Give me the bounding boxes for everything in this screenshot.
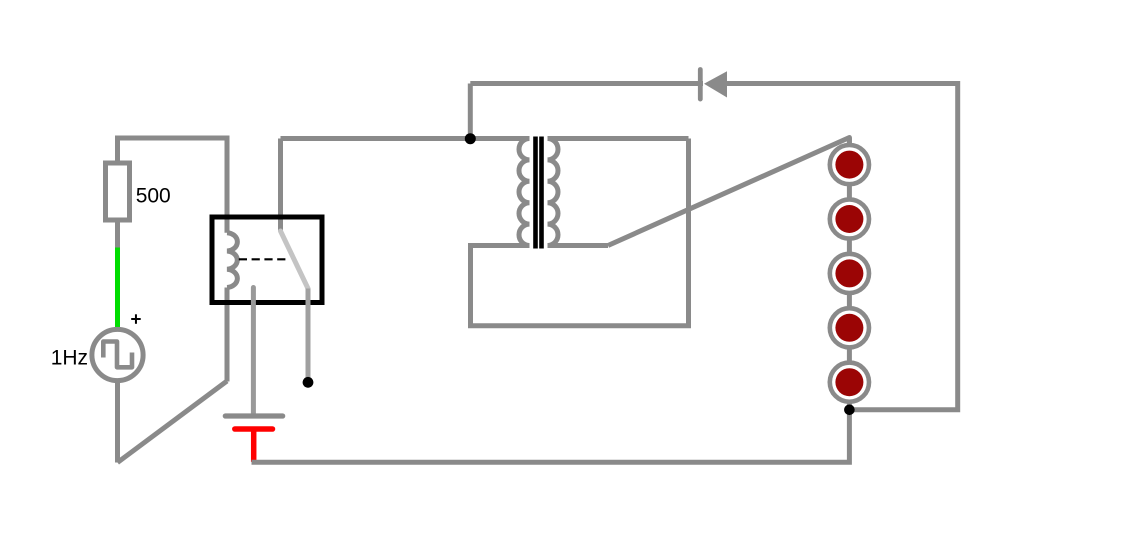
wire top-left from resistor top to relay coil top bbox=[118, 138, 228, 233]
wire transformer secondary top bbox=[548, 136, 689, 141]
LED D4 bbox=[830, 254, 869, 293]
svg-text:1Hz: 1Hz bbox=[51, 347, 88, 370]
wire switch top lead bbox=[278, 139, 283, 232]
relay RL1 coil bbox=[227, 233, 237, 288]
wire transformer primary bottom bbox=[471, 139, 689, 326]
voltage source VS1 1Hz square wave bbox=[92, 329, 143, 380]
wire source bottom lead down bbox=[115, 383, 120, 463]
relay common lead down to ground bbox=[251, 288, 256, 416]
relay switch open post dot bbox=[303, 377, 314, 388]
label + (source positive terminal) bbox=[131, 314, 141, 324]
node junction at LED bottom bbox=[844, 405, 855, 416]
wire relay coil bottom lead bbox=[225, 288, 230, 382]
wire junction vertical up to diode rail bbox=[468, 84, 473, 139]
ground G2 stem (red) bbox=[251, 429, 257, 462]
LED D2 bbox=[830, 145, 869, 184]
relay RL1 switch lever bbox=[281, 231, 309, 289]
LED D5 bbox=[830, 308, 869, 347]
wire diode left lead bbox=[470, 81, 703, 86]
wire top rail from switch top to transformer primary bbox=[281, 136, 530, 141]
wire resistor bottom lead bbox=[115, 220, 120, 248]
ground G1 bar bbox=[225, 413, 282, 418]
LED D6 bbox=[830, 363, 869, 402]
LED D3 bbox=[830, 199, 869, 238]
relay RL1 box bbox=[212, 217, 322, 303]
svg-text:500: 500 bbox=[136, 185, 171, 208]
diode D1 triangle bbox=[704, 71, 727, 97]
relay RL1 dashed link bbox=[239, 258, 286, 260]
wire diode right lead to right rail down to LED bottom bbox=[727, 84, 958, 410]
wire diagonal secondary to LED chain top bbox=[608, 138, 849, 246]
transformer T1 primary coil bbox=[519, 139, 530, 246]
wire diagonal source bottom to relay coil bottom bbox=[118, 381, 228, 463]
wire transformer secondary bottom bbox=[548, 243, 609, 248]
node junction at transformer top bbox=[465, 133, 476, 144]
wire (green, positive) resistor to source bbox=[115, 248, 120, 329]
transformer T1 core bbox=[536, 137, 542, 249]
wire bottom rail bbox=[252, 410, 850, 463]
diode D1 cathode bar bbox=[698, 70, 703, 100]
ground G2 bar (red, negative net) bbox=[235, 426, 273, 432]
resistor R1 500 ohm bbox=[106, 163, 130, 220]
relay switch bottom lead bbox=[306, 289, 311, 378]
wire LED chain vertical bbox=[847, 138, 852, 410]
transformer T1 secondary coil bbox=[548, 139, 559, 246]
